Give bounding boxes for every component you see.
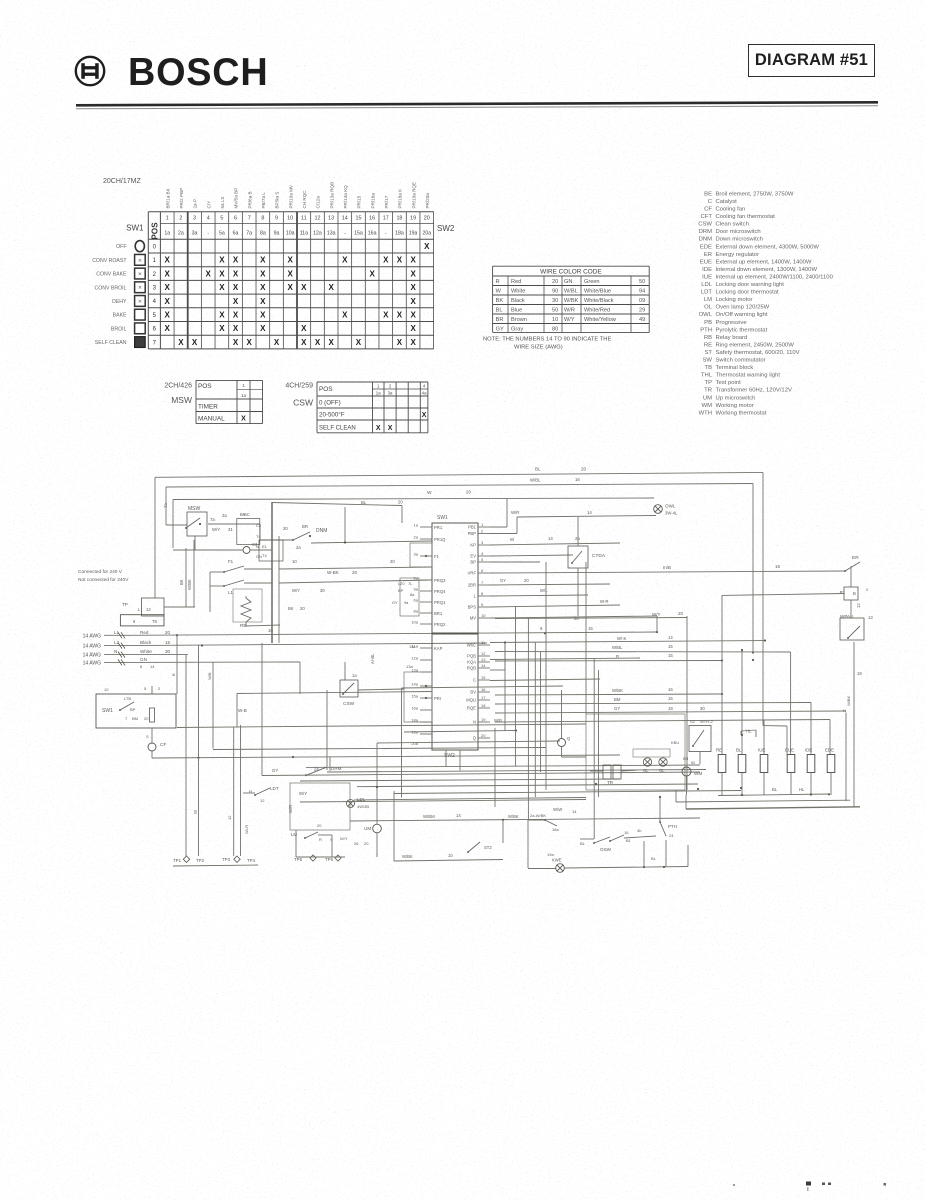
svg-text:12: 12 [481, 651, 486, 656]
svg-text:14 AWG: 14 AWG [83, 633, 102, 639]
svg-text:L20: L20 [398, 581, 405, 586]
svg-text:X: X [410, 297, 416, 306]
svg-text:Up microswitch: Up microswitch [716, 395, 756, 401]
svg-text:BR1: BR1 [434, 611, 443, 616]
svg-text:L: L [138, 607, 141, 612]
svg-text:BR/1a BK: BR/1a BK [165, 187, 170, 208]
svg-text:SW1: SW1 [126, 224, 144, 233]
svg-text:ST2: ST2 [484, 845, 492, 850]
svg-text:CSW: CSW [698, 222, 712, 228]
svg-text:KBU: KBU [671, 740, 679, 745]
svg-text:1: 1 [377, 384, 380, 389]
svg-text:EDE: EDE [700, 244, 712, 250]
svg-text:KAP: KAP [434, 646, 443, 651]
svg-text:1a: 1a [241, 393, 247, 398]
svg-text:20: 20 [364, 841, 369, 846]
svg-text:12: 12 [260, 798, 265, 803]
svg-text:LDT: LDT [701, 290, 713, 296]
svg-text:TP5: TP5 [294, 857, 303, 862]
svg-text:11: 11 [301, 216, 307, 222]
svg-text:MSW: MSW [171, 395, 192, 405]
svg-text:14: 14 [587, 510, 592, 515]
svg-text:Working motor: Working motor [716, 403, 754, 409]
svg-text:31: 31 [228, 527, 233, 532]
svg-text:12a: 12a [411, 656, 418, 661]
svg-text:2CH/426: 2CH/426 [164, 383, 192, 390]
svg-text:IDE: IDE [702, 267, 712, 273]
svg-text:BL: BL [535, 467, 541, 472]
svg-text:09: 09 [639, 298, 645, 304]
svg-text:PR/14a KQ: PR/14a KQ [343, 185, 348, 209]
svg-text:5: 5 [144, 686, 147, 691]
svg-text:80: 80 [552, 327, 558, 333]
svg-text:3: 3 [481, 540, 484, 545]
svg-text:GY: GY [392, 600, 398, 605]
svg-text:10a: 10a [411, 620, 418, 625]
svg-text:X: X [247, 338, 253, 347]
svg-text:B: B [853, 591, 856, 596]
svg-text:CONV BAKE: CONV BAKE [96, 272, 127, 278]
svg-text:14 AWG: 14 AWG [83, 644, 102, 650]
svg-text:4: 4 [481, 551, 484, 556]
svg-text:N: N [256, 544, 259, 549]
svg-text:14: 14 [572, 809, 577, 814]
svg-text:Down microswitch: Down microswitch [716, 237, 763, 243]
svg-text:PR/10a MV: PR/10a MV [288, 184, 293, 208]
svg-text:19: 19 [481, 717, 486, 722]
svg-text:W6C: W6C [467, 643, 476, 648]
svg-text:9a: 9a [274, 231, 280, 237]
svg-text:0 (OFF): 0 (OFF) [319, 400, 341, 407]
svg-text:50: 50 [639, 279, 645, 285]
svg-text:14: 14 [548, 536, 553, 541]
svg-text:X: X [219, 269, 225, 278]
svg-text:W/B: W/B [494, 718, 502, 723]
svg-text:SELF CLEAN: SELF CLEAN [319, 425, 356, 431]
svg-text:CSW: CSW [343, 701, 355, 707]
svg-text:PB: PB [704, 320, 712, 326]
svg-text:16: 16 [369, 216, 375, 222]
svg-text:19a: 19a [409, 231, 418, 237]
svg-text:W/R: W/R [288, 805, 293, 813]
svg-text:X: X [342, 256, 348, 265]
svg-text:CSW: CSW [293, 398, 313, 408]
svg-text:SW: SW [703, 358, 713, 364]
svg-text:X: X [233, 338, 239, 347]
svg-text:WPAU: WPAU [840, 614, 853, 619]
svg-text:2: 2 [158, 686, 161, 691]
svg-text:Working thermostat: Working thermostat [716, 410, 767, 416]
svg-text:1a: 1a [352, 673, 357, 678]
svg-text:19a: 19a [547, 852, 554, 857]
svg-text:X: X [383, 256, 389, 265]
svg-text:18: 18 [481, 703, 486, 708]
svg-text:×: × [138, 285, 142, 292]
svg-text:12: 12 [227, 815, 232, 820]
svg-text:BL: BL [772, 787, 778, 792]
svg-text:X: X [178, 338, 184, 347]
svg-text:X: X [219, 310, 225, 319]
svg-text:10a: 10a [286, 231, 295, 237]
svg-text:CF: CF [160, 742, 166, 748]
svg-text:Red: Red [511, 279, 521, 285]
svg-text:X: X [342, 310, 348, 319]
svg-text:W/Y: W/Y [212, 527, 220, 532]
svg-text:BP: BP [130, 707, 136, 712]
svg-text:Connected for 240 V: Connected for 240 V [78, 569, 123, 575]
svg-text:MV/5a BP: MV/5a BP [234, 188, 239, 209]
svg-text:Black: Black [140, 640, 152, 645]
svg-text:OL: OL [704, 305, 713, 311]
svg-text:1: 1 [242, 383, 245, 388]
svg-text:F1: F1 [228, 559, 234, 564]
svg-text:X: X [233, 256, 239, 265]
svg-text:16: 16 [775, 564, 781, 569]
svg-text:10: 10 [104, 687, 109, 692]
svg-text:X: X [383, 310, 389, 319]
svg-text:Internal up element, 2400W/110: Internal up element, 2400W/1100, 2400/11… [716, 274, 834, 280]
svg-text:11a: 11a [300, 231, 308, 237]
svg-text:18: 18 [396, 216, 402, 222]
svg-text:OWL: OWL [665, 504, 676, 509]
svg-text:OFF: OFF [116, 244, 126, 250]
svg-text:X: X [422, 412, 427, 419]
svg-text:OL: OL [643, 768, 649, 773]
svg-text:IUE: IUE [758, 748, 765, 753]
svg-text:3a: 3a [192, 231, 198, 237]
svg-text:MANUAL: MANUAL [198, 416, 225, 423]
svg-text:CTDA: CTDA [592, 553, 606, 559]
svg-text:CH RQC: CH RQC [302, 190, 307, 209]
svg-text:X: X [397, 256, 403, 265]
svg-text:20: 20 [283, 526, 288, 531]
svg-text:X: X [274, 338, 280, 347]
svg-text:18: 18 [668, 706, 673, 711]
svg-text:X: X [301, 283, 307, 292]
svg-text:T8: T8 [152, 619, 158, 624]
svg-text:7a: 7a [210, 517, 215, 522]
svg-text:20: 20 [317, 823, 322, 828]
svg-text:TR: TR [607, 780, 614, 785]
svg-text:PQB: PQB [467, 654, 476, 659]
svg-text:W/BK: W/BK [187, 579, 192, 590]
svg-text:5: 5 [153, 313, 157, 319]
svg-text:X: X [165, 269, 171, 278]
svg-text:Clean switch: Clean switch [716, 222, 749, 228]
svg-text:6: 6 [133, 619, 136, 624]
svg-text:14: 14 [150, 664, 155, 669]
svg-text:20: 20 [390, 559, 395, 564]
svg-text:S: S [330, 837, 333, 842]
svg-text:BM: BM [614, 697, 621, 702]
svg-text:20: 20 [165, 630, 171, 635]
svg-text:W/-R: W/-R [244, 825, 249, 834]
svg-text:7: 7 [481, 580, 484, 585]
svg-text:6: 6 [234, 216, 237, 222]
svg-text:10: 10 [292, 559, 297, 564]
svg-text:20: 20 [352, 570, 358, 575]
svg-text:29: 29 [639, 308, 645, 314]
svg-text:8a: 8a [260, 231, 266, 237]
svg-text:9: 9 [540, 626, 543, 631]
svg-text:Switch commutator: Switch commutator [716, 358, 766, 364]
svg-text:HL: HL [799, 787, 805, 792]
svg-text:W: W [193, 809, 198, 814]
svg-text:17: 17 [481, 695, 486, 700]
svg-text:W/BK: W/BK [508, 814, 519, 819]
svg-text:KP: KP [470, 543, 476, 548]
svg-text:RE: RE [704, 342, 712, 348]
svg-text:Broil element, 2750W, 3750W: Broil element, 2750W, 3750W [716, 191, 794, 197]
svg-text:BM: BM [132, 716, 138, 721]
svg-text:1a: 1a [414, 523, 419, 528]
svg-text:ER: ER [704, 252, 712, 258]
svg-text:6a: 6a [233, 231, 239, 237]
svg-text:2a P: 2a P [193, 199, 198, 208]
svg-text:MQU: MQU [466, 698, 476, 703]
svg-text:20: 20 [524, 578, 529, 583]
svg-text:X: X [410, 283, 416, 292]
svg-text:X: X [410, 256, 416, 265]
svg-text:30: 30 [320, 588, 325, 593]
svg-text:T4: T4 [262, 553, 267, 558]
svg-text:1: 1 [481, 522, 484, 527]
svg-text:Q: Q [567, 736, 571, 741]
svg-text:14: 14 [481, 663, 486, 668]
svg-text:Pyrolytic thermostat: Pyrolytic thermostat [716, 327, 768, 333]
svg-text:16: 16 [575, 477, 580, 482]
svg-text:BL: BL [496, 308, 503, 314]
svg-text:X: X [356, 338, 362, 347]
svg-text:20: 20 [552, 279, 558, 285]
svg-text:PR/15: PR/15 [357, 195, 362, 208]
svg-text:15: 15 [668, 644, 673, 649]
svg-text:X: X [376, 425, 381, 432]
svg-text:R: R [319, 837, 322, 842]
svg-text:MV: MV [470, 616, 476, 621]
svg-text:26: 26 [354, 841, 359, 846]
svg-text:BK: BK [179, 579, 184, 585]
svg-text:X: X [233, 269, 239, 278]
svg-text:X: X [219, 283, 225, 292]
svg-text:16: 16 [624, 830, 629, 835]
svg-text:X: X [287, 256, 293, 265]
svg-text:8a: 8a [410, 592, 415, 597]
svg-text:17: 17 [383, 216, 389, 222]
svg-text:L1: L1 [228, 590, 233, 595]
svg-text:BP: BP [398, 588, 404, 593]
svg-text:L2: L2 [114, 640, 120, 645]
svg-text:W: W [427, 490, 432, 496]
svg-text:-: - [385, 231, 387, 237]
svg-text:49: 49 [639, 317, 645, 323]
svg-text:20: 20 [398, 500, 403, 505]
svg-text:W: W [510, 537, 515, 542]
svg-text:PB1: PB1 [468, 525, 477, 530]
svg-text:11a: 11a [409, 644, 416, 649]
svg-text:X: X [287, 283, 293, 292]
svg-text:Brown: Brown [511, 317, 527, 323]
svg-text:S2: S2 [690, 719, 696, 724]
svg-text:Green: Green [584, 279, 600, 285]
svg-text:30: 30 [165, 649, 171, 654]
svg-text:White/Blue: White/Blue [584, 289, 611, 295]
svg-text:PBP: PBP [468, 531, 477, 536]
svg-text:X: X [397, 310, 403, 319]
svg-text:1a: 1a [376, 391, 381, 396]
svg-text:DEHY: DEHY [112, 299, 127, 305]
svg-text:3a: 3a [388, 391, 393, 396]
svg-text:GY: GY [614, 706, 620, 711]
svg-text:BPS: BPS [468, 605, 477, 610]
svg-text:1: 1 [166, 216, 169, 222]
svg-text:2a: 2a [296, 545, 301, 550]
svg-text:W/BL: W/BL [564, 289, 578, 295]
svg-text:6: 6 [153, 327, 157, 333]
svg-text:WTH-2: WTH-2 [700, 719, 713, 724]
svg-text:C/12a: C/12a [316, 196, 321, 209]
svg-text:BR: BR [496, 317, 504, 323]
svg-text:PRI: PRI [434, 696, 441, 701]
svg-text:X: X [233, 283, 239, 292]
svg-text:Oven lamp 120/25W: Oven lamp 120/25W [716, 305, 770, 311]
svg-text:10: 10 [552, 317, 558, 323]
svg-text:2: 2 [153, 272, 157, 278]
svg-text:2: 2 [179, 216, 182, 222]
svg-text:-: - [344, 231, 346, 237]
svg-text:PR/20a: PR/20a [425, 193, 430, 209]
svg-text:POS: POS [319, 386, 333, 393]
svg-text:6a: 6a [414, 598, 419, 603]
svg-text:BP: BP [470, 560, 476, 565]
svg-text:18a: 18a [395, 231, 404, 237]
svg-text:X: X [287, 269, 293, 278]
svg-text:NOTE: THE NUMBERS 14 TO 90 IN: NOTE: THE NUMBERS 14 TO 90 INDICATE THE [483, 337, 611, 343]
svg-text:13a: 13a [406, 664, 413, 669]
svg-text:18: 18 [857, 671, 862, 676]
svg-text:GY: GY [272, 768, 278, 773]
svg-text:Relay board: Relay board [716, 335, 748, 341]
svg-text:30: 30 [552, 298, 558, 304]
svg-text:Gray: Gray [511, 327, 523, 333]
svg-text:CF: CF [704, 207, 712, 213]
svg-text:W/R: W/R [564, 308, 575, 314]
svg-text:BE: BE [704, 191, 712, 197]
svg-text:WM: WM [702, 403, 713, 409]
svg-text:DNM: DNM [699, 237, 713, 243]
svg-text:7: 7 [248, 216, 251, 222]
svg-text:W/BK: W/BK [402, 854, 413, 859]
svg-text:PR/6a B: PR/6a B [247, 191, 252, 208]
svg-text:Cooling fan: Cooling fan [716, 207, 746, 213]
svg-text:TR: TR [704, 388, 712, 394]
svg-text:Cooling fan thermostat: Cooling fan thermostat [716, 214, 776, 220]
svg-text:P1: P1 [840, 590, 846, 595]
svg-text:10: 10 [287, 216, 293, 222]
svg-text:In/B: In/B [663, 565, 671, 570]
svg-text:X: X [315, 338, 321, 347]
svg-text:VRF: VRF [468, 571, 477, 576]
svg-text:SW1: SW1 [102, 708, 113, 714]
svg-text:20a: 20a [422, 231, 431, 237]
svg-text:WIRE SIZE (AWG): WIRE SIZE (AWG) [514, 345, 563, 351]
svg-text:8a: 8a [414, 609, 419, 614]
svg-text:9: 9 [481, 602, 484, 607]
svg-text:15: 15 [668, 653, 673, 658]
svg-text:7L: 7L [408, 581, 413, 586]
svg-text:4W/3B: 4W/3B [357, 804, 369, 809]
svg-text:GN: GN [140, 657, 147, 662]
svg-text:12a: 12a [313, 231, 322, 237]
svg-text:X: X [233, 310, 239, 319]
svg-text:15: 15 [668, 696, 673, 701]
svg-text:X: X [165, 324, 171, 333]
svg-text:LM: LM [704, 297, 712, 303]
svg-text:2BR: 2BR [468, 583, 476, 588]
svg-text:2: 2 [866, 587, 869, 592]
svg-text:7a: 7a [163, 503, 168, 508]
svg-text:0: 0 [153, 244, 157, 250]
svg-text:PRQ4: PRQ4 [434, 589, 446, 594]
svg-text:×: × [138, 271, 142, 278]
svg-text:EV: EV [470, 554, 476, 559]
svg-text:External down element, 4300W,: External down element, 4300W, 5000W [716, 244, 820, 250]
svg-text:W/Y: W/Y [652, 612, 661, 617]
svg-text:W/Y: W/Y [340, 836, 348, 841]
svg-text:TB: TB [704, 365, 712, 371]
svg-text:TP6: TP6 [325, 857, 334, 862]
svg-text:RB: RB [704, 335, 712, 341]
svg-text:GN: GN [564, 279, 572, 285]
svg-text:GY: GY [496, 327, 504, 333]
svg-text:14: 14 [456, 813, 461, 818]
svg-text:19: 19 [410, 216, 416, 222]
svg-text:OSW: OSW [600, 847, 612, 852]
svg-text:Locking door warning light: Locking door warning light [716, 282, 785, 288]
svg-text:TP4: TP4 [247, 858, 256, 863]
svg-text:PRQ2: PRQ2 [434, 622, 446, 627]
svg-text:X: X [328, 283, 334, 292]
svg-text:E1: E1 [262, 544, 268, 549]
svg-text:7a: 7a [246, 231, 252, 237]
svg-text:PR/18a K: PR/18a K [398, 188, 403, 209]
svg-text:OWL: OWL [699, 312, 713, 318]
svg-text:5: 5 [481, 557, 484, 562]
svg-text:14: 14 [342, 216, 348, 222]
svg-text:20: 20 [481, 733, 486, 738]
svg-text:C/Y: C/Y [206, 201, 211, 209]
svg-text:12: 12 [314, 216, 320, 222]
svg-text:RQE: RQE [467, 706, 476, 711]
svg-text:X: X [410, 269, 416, 278]
svg-text:2: 2 [481, 529, 484, 534]
svg-text:W: W [496, 289, 502, 295]
svg-text:4: 4 [153, 299, 157, 305]
svg-text:W-BK: W-BK [327, 570, 340, 575]
svg-text:20CH/17MZ: 20CH/17MZ [103, 178, 141, 185]
svg-text:X: X [260, 297, 266, 306]
svg-text:W/R: W/R [511, 510, 519, 515]
svg-text:20a: 20a [411, 741, 418, 746]
svg-text:3: 3 [193, 216, 196, 222]
svg-text:POS: POS [198, 383, 212, 390]
svg-text:4b: 4b [637, 828, 642, 833]
svg-text:PR/17: PR/17 [384, 195, 389, 208]
svg-text:20: 20 [678, 611, 684, 616]
svg-text:W/L: W/L [540, 588, 548, 593]
svg-text:White/Black: White/Black [584, 298, 614, 304]
svg-text:EUE: EUE [700, 259, 712, 265]
